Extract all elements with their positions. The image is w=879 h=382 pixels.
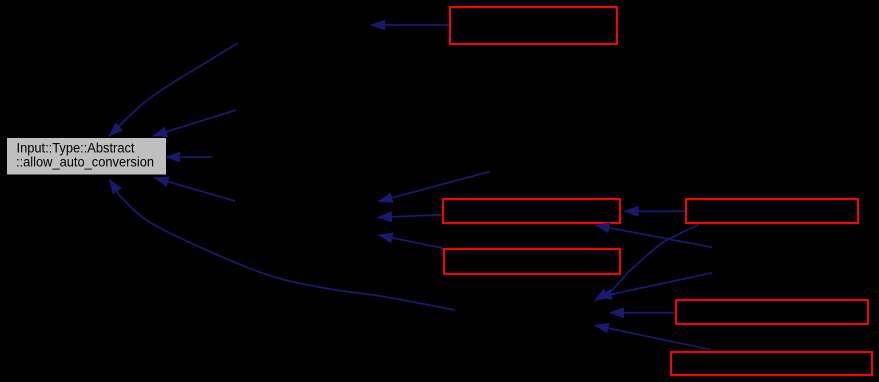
edge hidden F to B3 [596, 225, 713, 247]
node B1 (top red box) [450, 7, 617, 44]
edge hidden B to central node (horizontal) [166, 156, 212, 158]
node B6 (lower-right red box) [676, 300, 868, 324]
edge B4 to B3 (horizontal) [625, 210, 686, 212]
edge hidden F to hidden E [598, 273, 713, 297]
edge A to central node (upper curve) [109, 43, 238, 136]
edge B6 to hidden E (horizontal) [610, 312, 675, 314]
svg-text:Input::Type::Abstract: Input::Type::Abstract [17, 141, 135, 156]
node B4 (middle-right red box) [686, 199, 858, 223]
node B7 (bottom red box) [671, 352, 872, 375]
edge B4 bottom to hidden E (S-curve) [595, 225, 700, 301]
edge hidden D to central node [155, 178, 236, 201]
edge hidden E to central node (long bottom curve) [110, 180, 456, 311]
node Input::Type::Abstract::allow_auto_conversion (central grey node) [7, 138, 166, 175]
edge B1 to hidden node A [371, 24, 449, 26]
edge B5 to hidden D [379, 235, 444, 248]
edge hidden G to hidden D [379, 172, 491, 202]
node B3 (middle-left red box) [443, 199, 620, 223]
edge B3 to hidden D [378, 215, 442, 218]
node B5 (red box below B3) [444, 249, 620, 274]
edge B7 to hidden E [595, 325, 712, 350]
edge hidden C to central node [153, 110, 236, 136]
svg-text:::allow_auto_conversion: ::allow_auto_conversion [16, 155, 154, 170]
